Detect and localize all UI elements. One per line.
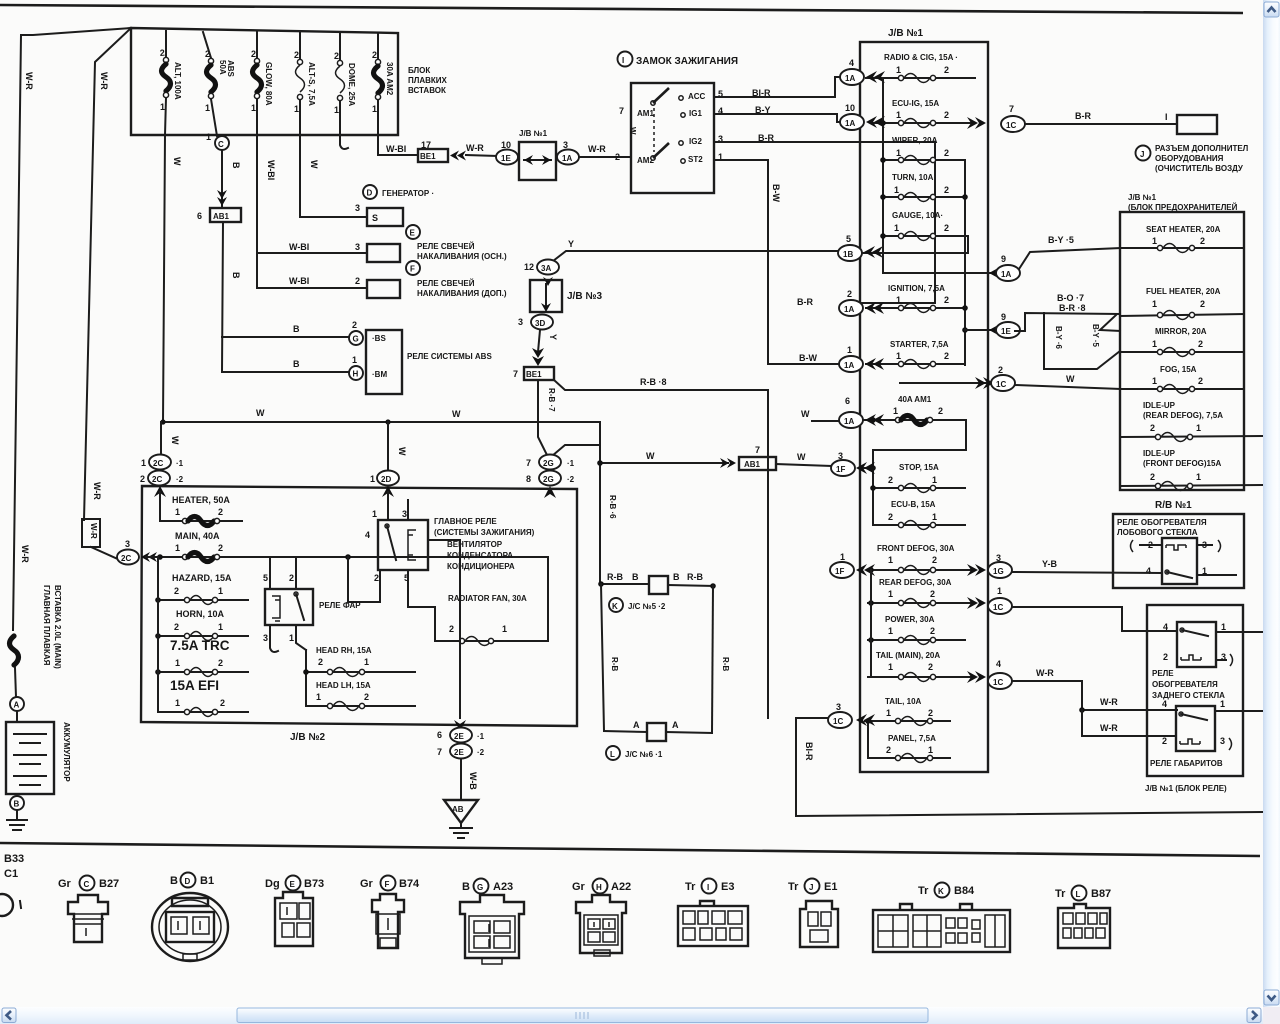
- svg-text:4: 4: [1146, 566, 1151, 576]
- fuse 15A EFI: [158, 678, 248, 717]
- svg-text:AM1: AM1: [637, 109, 654, 118]
- svg-text:2: 2: [1150, 423, 1155, 433]
- node C: [206, 99, 229, 150]
- svg-text:(FRONT DEFOG)15A: (FRONT DEFOG)15A: [1143, 459, 1221, 468]
- fuse GAUGE 10A: [862, 211, 968, 253]
- svg-text:1: 1: [289, 633, 294, 643]
- wire B AB1 to ABS relay: [222, 222, 241, 372]
- svg-text:ACC: ACC: [688, 92, 706, 101]
- svg-text:·2: ·2: [477, 748, 485, 757]
- svg-text:7: 7: [513, 369, 518, 379]
- svg-text:2: 2: [944, 148, 949, 158]
- svg-text:1A: 1A: [1001, 270, 1011, 279]
- svg-text:J/C №5 ·2: J/C №5 ·2: [628, 602, 666, 611]
- fuse HEATER 50A: [160, 495, 242, 526]
- connector 2C 1: [141, 455, 184, 470]
- connector 2C 2: [140, 471, 184, 486]
- fuse POWER 30A: [868, 615, 965, 645]
- svg-text:2: 2: [251, 49, 256, 59]
- wire B to BM: [222, 359, 349, 372]
- svg-text:E3: E3: [721, 881, 734, 893]
- svg-text:IG1: IG1: [689, 109, 702, 118]
- svg-text:1B: 1B: [843, 250, 853, 259]
- connector 1E 9: [965, 312, 1020, 338]
- svg-text:W: W: [256, 408, 265, 418]
- svg-text:1: 1: [896, 65, 901, 75]
- svg-text:B: B: [170, 875, 178, 887]
- svg-text:G: G: [477, 883, 483, 892]
- svg-text:·2: ·2: [567, 475, 575, 484]
- connector 1A 4: [840, 58, 885, 85]
- connector J E1: [788, 879, 838, 948]
- wire W to rear defog relay: [1012, 607, 1177, 631]
- svg-text:1C: 1C: [993, 678, 1003, 687]
- svg-text:1: 1: [894, 185, 899, 195]
- svg-text:Dg: Dg: [265, 878, 280, 890]
- svg-text:РЕЛЕ СИСТЕМЫ ABS: РЕЛЕ СИСТЕМЫ ABS: [407, 352, 492, 361]
- svg-text:1: 1: [352, 355, 357, 365]
- svg-text:1: 1: [372, 104, 377, 114]
- svg-text:1: 1: [1152, 236, 1157, 246]
- connector aux equipment: [1177, 115, 1217, 134]
- fusible link ALT 100A: [159, 31, 182, 135]
- wire J/B1 left bus: [880, 78, 996, 273]
- wire R-B left side: [601, 584, 619, 731]
- svg-text:B-O ·7: B-O ·7: [1057, 293, 1084, 303]
- svg-text:1: 1: [932, 512, 937, 522]
- svg-text:(СИСТЕМЫ ЗАЖИГАНИЯ): (СИСТЕМЫ ЗАЖИГАНИЯ): [434, 528, 535, 537]
- svg-text:GAUGE, 10A·: GAUGE, 10A·: [892, 211, 943, 220]
- wire W drop to 2D: [388, 422, 407, 470]
- svg-text:4: 4: [996, 659, 1001, 669]
- svg-text:IG2: IG2: [689, 137, 702, 146]
- svg-text:2C: 2C: [153, 459, 163, 468]
- svg-text:2: 2: [944, 223, 949, 233]
- svg-text:B87: B87: [1091, 888, 1111, 900]
- svg-text:·BM: ·BM: [372, 370, 387, 379]
- svg-text:R-B ·6: R-B ·6: [608, 495, 617, 519]
- svg-text:STARTER, 7,5A: STARTER, 7,5A: [890, 340, 949, 349]
- svg-text:R-B: R-B: [721, 657, 730, 671]
- svg-text:W-R: W-R: [89, 523, 98, 539]
- svg-text:B: B: [293, 359, 300, 369]
- svg-text:ПЛАВКИХ: ПЛАВКИХ: [408, 76, 448, 85]
- wire W corner drop: [600, 422, 617, 584]
- label B33 C1: [0, 853, 24, 916]
- wire R-B *7 to 2G: [538, 380, 556, 455]
- svg-text:2: 2: [932, 555, 937, 565]
- wire DOME open end: [340, 101, 348, 149]
- svg-text:2: 2: [364, 692, 369, 702]
- svg-text:БЛОК: БЛОК: [408, 66, 430, 75]
- wire W-R feed: [1012, 668, 1177, 713]
- wire B-Y IG1 to 1A10: [714, 105, 844, 122]
- svg-text:3: 3: [563, 140, 568, 150]
- connector 1F 3: [831, 451, 875, 476]
- svg-text:2: 2: [289, 573, 294, 583]
- fuse RADIO & CIG 15A: [866, 53, 975, 83]
- wire 2D to relay pin1: [382, 486, 394, 520]
- junction connector J/C No6: [604, 720, 712, 760]
- svg-text:1: 1: [840, 552, 845, 562]
- svg-text:ST2: ST2: [688, 155, 703, 164]
- svg-text:2: 2: [218, 658, 223, 668]
- wire relay pin3 stub: [407, 500, 409, 520]
- svg-text:R-B: R-B: [687, 572, 703, 582]
- wire W-R alternator branch: [84, 28, 131, 520]
- svg-text:AB1: AB1: [744, 460, 761, 469]
- svg-text:2: 2: [218, 507, 223, 517]
- svg-text:2: 2: [930, 626, 935, 636]
- svg-text:1: 1: [160, 102, 165, 112]
- wire W-R battery feed: [13, 28, 131, 630]
- fuse ECU-IG 15A: [872, 99, 975, 128]
- connector 2G 7: [526, 455, 575, 470]
- svg-text:1C: 1C: [833, 717, 843, 726]
- svg-text:3: 3: [402, 509, 407, 519]
- svg-text:W-R: W-R: [1036, 668, 1054, 678]
- svg-text:9: 9: [1001, 312, 1006, 322]
- svg-text:2: 2: [174, 622, 179, 632]
- svg-text:2: 2: [334, 51, 339, 61]
- svg-text:I: I: [622, 56, 624, 65]
- svg-text:2: 2: [928, 708, 933, 718]
- svg-text:BE1: BE1: [526, 370, 542, 379]
- svg-text:W-R: W-R: [466, 143, 484, 153]
- svg-text:E1: E1: [824, 881, 837, 893]
- svg-text:7.5A TRC: 7.5A TRC: [170, 638, 230, 653]
- svg-text:1A: 1A: [844, 305, 854, 314]
- svg-text:2: 2: [174, 586, 179, 596]
- svg-text:(БЛОК ПРЕДОХРАНИТЕЛЕЙ: (БЛОК ПРЕДОХРАНИТЕЛЕЙ: [1128, 203, 1238, 212]
- glow plug relay main E: [257, 225, 507, 262]
- svg-text:MAIN, 40A: MAIN, 40A: [175, 531, 220, 541]
- svg-text:ГЛАВНОЕ РЕЛЕ: ГЛАВНОЕ РЕЛЕ: [434, 517, 497, 526]
- svg-text:1: 1: [886, 708, 891, 718]
- junction AB1 7: [739, 445, 776, 470]
- svg-text:B1: B1: [200, 875, 214, 887]
- svg-text:W: W: [646, 451, 655, 461]
- fuse MAIN 40A: [146, 531, 548, 562]
- svg-text:1: 1: [334, 105, 339, 115]
- svg-text:W: W: [801, 409, 810, 419]
- fuse TAIL 10A: [865, 697, 950, 726]
- svg-text:FOG, 15A: FOG, 15A: [1160, 365, 1197, 374]
- wire Y-B 1G to relay: [1012, 559, 1162, 573]
- svg-text:IDLE-UP: IDLE-UP: [1143, 401, 1176, 410]
- svg-text:1: 1: [175, 543, 180, 553]
- connector 2G 8: [526, 471, 575, 499]
- svg-text:B: B: [231, 272, 241, 279]
- connector 1A 10: [840, 103, 885, 130]
- svg-text:R/B №1: R/B №1: [1155, 500, 1192, 511]
- svg-text:2: 2: [352, 320, 357, 330]
- svg-text:B: B: [632, 572, 639, 582]
- connector 2C 3: [117, 539, 157, 565]
- svg-text:6: 6: [845, 396, 850, 406]
- svg-text:2: 2: [944, 351, 949, 361]
- svg-text:B-R: B-R: [758, 133, 774, 143]
- svg-text:Y: Y: [568, 239, 574, 249]
- svg-text:1G: 1G: [993, 567, 1004, 576]
- wire B-Y *5: [1019, 235, 1120, 269]
- wire W drop to 2C: [161, 422, 180, 453]
- svg-text:2: 2: [294, 50, 299, 60]
- scrollbar right button: [1247, 1008, 1261, 1023]
- svg-text:2: 2: [1162, 736, 1167, 746]
- svg-text:2: 2: [1163, 652, 1168, 662]
- svg-text:K: K: [612, 602, 618, 611]
- svg-text:КОНДЕНСАТОРА: КОНДЕНСАТОРА: [447, 551, 513, 560]
- fuse PANEL 7.5A: [865, 718, 950, 762]
- fuse MIRROR 20A: [1120, 327, 1244, 357]
- svg-text:E: E: [290, 880, 296, 889]
- svg-text:MIRROR, 20A: MIRROR, 20A: [1155, 327, 1207, 336]
- wire R-B *8: [554, 377, 768, 390]
- node H: [349, 355, 363, 380]
- svg-text:2: 2: [888, 475, 893, 485]
- svg-text:D: D: [367, 189, 373, 198]
- connector D B1: [152, 873, 228, 962]
- connector 3D 3: [518, 315, 553, 330]
- svg-text:B-W: B-W: [799, 353, 817, 363]
- svg-text:1: 1: [888, 662, 893, 672]
- svg-text:1: 1: [997, 586, 1002, 596]
- svg-text:Tr: Tr: [788, 881, 799, 893]
- svg-text:1F: 1F: [835, 567, 844, 576]
- svg-text:1: 1: [928, 745, 933, 755]
- connector 1C 4: [967, 659, 1012, 689]
- svg-text:1: 1: [888, 589, 893, 599]
- svg-text:4: 4: [849, 58, 854, 68]
- wire BI-R to relay block: [796, 718, 1262, 816]
- connector G A23: [460, 879, 524, 965]
- svg-text:1: 1: [1196, 472, 1201, 482]
- svg-text:2: 2: [938, 406, 943, 416]
- wire FOG feed: [900, 377, 994, 389]
- svg-text:ЛОБОВОГО СТЕКЛА: ЛОБОВОГО СТЕКЛА: [1117, 528, 1198, 537]
- svg-text:3: 3: [263, 633, 268, 643]
- svg-text:B74: B74: [399, 878, 420, 890]
- svg-text:1C: 1C: [996, 380, 1006, 389]
- svg-text:2: 2: [372, 50, 377, 60]
- svg-text:AB: AB: [452, 805, 464, 814]
- fuse STOP 15A: [870, 463, 965, 493]
- svg-text:B-Y ·6: B-Y ·6: [1054, 326, 1063, 350]
- fuse 40A AM1: [862, 395, 966, 525]
- connector 1C 2: [991, 365, 1015, 391]
- svg-text:1: 1: [364, 657, 369, 667]
- svg-text:E: E: [410, 229, 416, 238]
- wire W-R to clearance relay: [1082, 710, 1176, 736]
- svg-text:1: 1: [896, 110, 901, 120]
- connector 1A 1: [799, 345, 884, 372]
- svg-text:R-B ·8: R-B ·8: [640, 377, 667, 387]
- svg-text:I: I: [1165, 112, 1168, 122]
- fuse WIPER 20A: [883, 136, 965, 165]
- svg-text:H: H: [596, 883, 602, 892]
- junction BE1 7: [513, 367, 554, 380]
- fuse FUEL HEATER 20A: [1120, 287, 1244, 320]
- svg-text:1: 1: [1152, 339, 1157, 349]
- svg-text:4: 4: [1162, 699, 1167, 709]
- svg-text:F: F: [410, 265, 415, 274]
- svg-text:ОБОРУДОВАНИЯ: ОБОРУДОВАНИЯ: [1155, 154, 1224, 163]
- svg-text:G: G: [353, 335, 359, 344]
- svg-text:R-B: R-B: [610, 657, 619, 671]
- svg-text:J/B №1: J/B №1: [888, 28, 923, 39]
- svg-text:РЕЛЕ СВЕЧЕЙ: РЕЛЕ СВЕЧЕЙ: [417, 279, 475, 288]
- svg-text:ГЕНЕРАТОР ·: ГЕНЕРАТОР ·: [382, 189, 434, 198]
- wire B to BS: [222, 324, 349, 337]
- svg-text:W: W: [397, 447, 407, 456]
- relay clearance lamps РЕЛЕ ГАБАРИТОВ: [1150, 699, 1232, 768]
- scrollbar left button: [2, 1008, 16, 1023]
- svg-text:B-W: B-W: [771, 184, 781, 202]
- wire B-R to aux connector: [1025, 111, 1177, 124]
- svg-text:РЕЛЕ ОБОГРЕВАТЕЛЯ: РЕЛЕ ОБОГРЕВАТЕЛЯ: [1117, 518, 1207, 527]
- svg-text:2: 2: [449, 624, 454, 634]
- connector E B73: [265, 876, 324, 947]
- svg-text:7: 7: [437, 747, 442, 757]
- svg-text:Y: Y: [548, 334, 558, 340]
- svg-text:1: 1: [1152, 299, 1157, 309]
- svg-text:B: B: [673, 572, 680, 582]
- svg-text:1A: 1A: [844, 417, 854, 426]
- connector 1F 1: [830, 552, 875, 578]
- connector 1E 10: [496, 140, 518, 165]
- svg-text:W: W: [170, 436, 180, 445]
- svg-text:2: 2: [847, 289, 852, 299]
- svg-text:J/C №6 ·1: J/C №6 ·1: [625, 750, 663, 759]
- wire R-B drop to 1C: [767, 390, 769, 718]
- svg-text:·1: ·1: [477, 732, 485, 741]
- fuse IGNITION 7.5A: [866, 284, 965, 313]
- svg-text:DOME, 25A: DOME, 25A: [347, 63, 356, 106]
- svg-text:1: 1: [502, 624, 507, 634]
- svg-text:2: 2: [928, 662, 933, 672]
- svg-text:W-R: W-R: [99, 72, 109, 90]
- wire W AB1 to 1F: [776, 452, 831, 466]
- svg-text:B33: B33: [4, 853, 24, 865]
- svg-text:1A: 1A: [844, 361, 854, 370]
- wire B-W ST2: [714, 152, 858, 364]
- svg-text:ВСТАВОК: ВСТАВОК: [408, 86, 446, 95]
- svg-text:B: B: [462, 881, 470, 893]
- fuse ECU-B 15A: [873, 500, 965, 530]
- svg-text:W: W: [1066, 374, 1075, 384]
- svg-text:IDLE-UP: IDLE-UP: [1143, 449, 1176, 458]
- svg-text:1: 1: [251, 103, 256, 113]
- svg-text:2: 2: [374, 573, 379, 583]
- svg-text:3: 3: [518, 317, 523, 327]
- wire branch to 2G: [552, 445, 600, 456]
- svg-text:8: 8: [526, 474, 531, 484]
- svg-text:2: 2: [944, 185, 949, 195]
- svg-text:2: 2: [1200, 236, 1205, 246]
- svg-text:1: 1: [888, 555, 893, 565]
- svg-text:4: 4: [365, 530, 370, 540]
- svg-text:2: 2: [220, 698, 225, 708]
- svg-text:2C: 2C: [152, 475, 162, 484]
- connector 1A 2: [797, 289, 884, 316]
- svg-text:W-R: W-R: [20, 545, 30, 563]
- svg-text:ЗАМОК ЗАЖИГАНИЯ: ЗАМОК ЗАЖИГАНИЯ: [636, 56, 738, 67]
- svg-text:10: 10: [845, 103, 855, 113]
- svg-text:7: 7: [619, 106, 624, 116]
- svg-text:B-Y ·5: B-Y ·5: [1091, 324, 1100, 348]
- junction arrow into 2C pair: [154, 486, 166, 521]
- svg-text:2G: 2G: [543, 475, 554, 484]
- node A: [10, 668, 24, 711]
- wire B node C to AB1: [222, 150, 241, 206]
- svg-text:1: 1: [206, 132, 211, 142]
- svg-text:FRONT DEFOG, 30A: FRONT DEFOG, 30A: [877, 544, 955, 553]
- svg-text:GLOW, 80A: GLOW, 80A: [264, 62, 273, 106]
- svg-text:2: 2: [140, 474, 145, 484]
- connector 2E 6: [437, 720, 485, 743]
- svg-text:B84: B84: [954, 885, 975, 897]
- svg-text:B-Y: B-Y: [755, 105, 771, 115]
- fuse RADIATOR FAN 30A: [435, 557, 548, 646]
- svg-text:J: J: [809, 883, 813, 892]
- svg-text:B: B: [14, 800, 20, 809]
- relay ГЛАВНОЕ РЕЛЕ main relay: [365, 509, 535, 583]
- svg-text:7: 7: [755, 445, 760, 455]
- connector 1A 3: [557, 140, 579, 165]
- scrollbar down button: [1264, 990, 1279, 1005]
- wire W-BI AM2 to BE1: [378, 135, 418, 155]
- relay windshield heater contacts: [1131, 538, 1237, 584]
- wire BI-R ACC to 1A4: [714, 77, 844, 99]
- svg-text:2D: 2D: [381, 475, 391, 484]
- svg-text:1E: 1E: [501, 154, 511, 163]
- svg-text:C: C: [84, 880, 90, 889]
- svg-text:R-B: R-B: [607, 572, 623, 582]
- svg-text:1: 1: [932, 475, 937, 485]
- connector I E3: [678, 879, 748, 947]
- svg-text:1: 1: [316, 692, 321, 702]
- svg-text:ALT, 100A: ALT, 100A: [173, 62, 182, 100]
- relay block J/B No1 BLOK RELE: [1145, 605, 1243, 793]
- fuse IDLE-UP FRONT DEFOG 15A: [1120, 449, 1262, 491]
- scrollbar up button: [1264, 2, 1279, 17]
- scrollbar corner: [1263, 1007, 1280, 1024]
- svg-text:1: 1: [1152, 376, 1157, 386]
- wire Y 3D to BE1: [532, 330, 558, 366]
- connector 1B 5: [838, 234, 883, 261]
- svg-text:2: 2: [159, 48, 165, 58]
- fusible link GLOW 80A: [251, 31, 273, 135]
- wire J/B2 left fuse bus: [157, 557, 159, 712]
- svg-text:1: 1: [896, 295, 901, 305]
- svg-text:A22: A22: [611, 881, 631, 893]
- svg-text:1: 1: [893, 406, 898, 416]
- junction block J/B No2 box: [141, 486, 577, 743]
- svg-text:2E: 2E: [454, 748, 464, 757]
- svg-text:КОНДИЦИОНЕРА: КОНДИЦИОНЕРА: [447, 562, 515, 571]
- svg-text:3: 3: [836, 702, 841, 712]
- svg-text:12: 12: [524, 262, 534, 272]
- svg-text:ВЕНТИЛЯТОР: ВЕНТИЛЯТОР: [447, 540, 503, 549]
- svg-text:W-BI: W-BI: [266, 160, 276, 180]
- svg-text:1: 1: [175, 698, 180, 708]
- connector K B84: [873, 883, 1010, 953]
- junction connector J/C No5: [598, 572, 716, 612]
- svg-text:3: 3: [125, 539, 130, 549]
- svg-text:W-B: W-B: [468, 772, 478, 790]
- svg-text:1F: 1F: [836, 465, 845, 474]
